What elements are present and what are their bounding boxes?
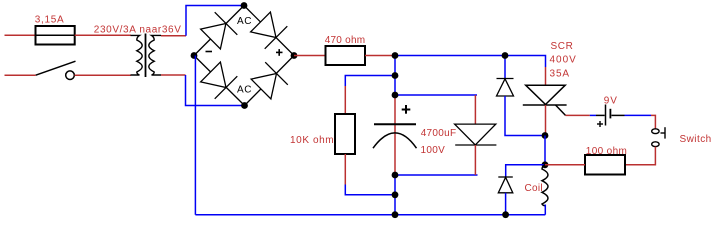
SCR U1 thyristor	[523, 85, 567, 115]
wire node A down	[394, 56, 396, 96]
wire 10K bottom lead red	[344, 154, 346, 185]
wire battery left lead	[596, 114, 605, 116]
node left minus	[191, 52, 198, 59]
switch S1 mains	[36, 61, 76, 79]
wire diode D6 top lead	[504, 56, 506, 79]
wire cathode node down	[544, 136, 546, 165]
transformer T1 core	[145, 34, 147, 78]
battery B1 9V	[606, 105, 611, 126]
wire mains left bottom	[5, 74, 36, 76]
wire top rail blue	[395, 56, 546, 68]
wire 10K bottom blue	[345, 185, 395, 195]
diode D3 bridge bottom-left	[201, 62, 238, 99]
resistor R2 10K ohm	[335, 114, 355, 154]
node 10K top junction	[392, 72, 399, 79]
node mid rail junction	[392, 211, 399, 218]
node top rail diode junction	[502, 52, 509, 59]
wire pushbutton bottom red	[625, 147, 655, 165]
diode D2 bridge top-right	[251, 12, 288, 49]
label plus	[276, 49, 283, 56]
svg-text:470 ohm: 470 ohm	[325, 35, 366, 46]
svg-text:400V: 400V	[550, 55, 577, 66]
node top AC	[241, 2, 248, 9]
wire fuse to transformer	[75, 34, 131, 36]
wire secondary top red	[161, 35, 186, 37]
node coil top junction	[542, 161, 549, 168]
resistor R1 470 ohm	[326, 46, 366, 65]
wire 100 ohm to coil node	[545, 164, 585, 166]
wire plus node to resistor	[294, 55, 326, 57]
wire cap top branch	[395, 94, 477, 96]
wire cap bottom branch	[395, 174, 478, 176]
svg-text:100V: 100V	[421, 145, 446, 156]
svg-text:Coil: Coil	[525, 183, 543, 194]
wire mid diode top lead	[474, 95, 476, 124]
node rail diode junction	[502, 211, 509, 218]
svg-text:10K ohm: 10K ohm	[290, 135, 334, 146]
wire minus node down left rail	[194, 56, 196, 215]
node cap top junction	[392, 92, 399, 99]
wire diode D6 bottom to SCR cathode	[505, 96, 545, 136]
wire SCR cathode red	[545, 105, 547, 136]
wire pushbutton top red	[651, 115, 655, 129]
wire to 10K top	[345, 76, 395, 87]
wire freewheel diode D7 branch	[506, 165, 545, 177]
svg-text:230V/3A naar36V: 230V/3A naar36V	[94, 25, 182, 36]
svg-text:100 ohm: 100 ohm	[586, 146, 627, 157]
node cap bottom junction	[392, 172, 399, 179]
svg-text:AC: AC	[237, 84, 252, 95]
wire mains left top	[5, 34, 36, 36]
diode D6 upper freewheel	[497, 79, 514, 97]
wire mid diode bottom lead	[474, 145, 476, 175]
fuse F1 3,15A	[36, 26, 75, 45]
svg-text:3,15A: 3,15A	[35, 15, 65, 26]
transformer T1 secondary winding	[149, 35, 161, 75]
wire coil bottom stub	[544, 205, 546, 215]
wire switch to transformer	[75, 74, 132, 76]
coil L1	[542, 165, 548, 206]
capacitor C1 plates	[373, 124, 417, 148]
node SCR cathode junction	[542, 132, 549, 139]
diode D4 bridge bottom-right	[251, 62, 288, 99]
label minus	[206, 51, 213, 53]
label plus cap	[402, 105, 411, 114]
node 10K bottom junction	[392, 191, 399, 198]
svg-text:AC: AC	[237, 16, 252, 27]
wire secondary bottom blue	[186, 75, 245, 106]
node A junction	[392, 52, 399, 59]
svg-text:9V: 9V	[604, 96, 618, 107]
node right plus	[291, 52, 298, 59]
capacitor C1 lead	[394, 95, 396, 175]
wire secondary bottom red	[161, 74, 186, 76]
wire battery right lead	[612, 114, 625, 116]
diode D7 coil freewheel	[498, 177, 513, 193]
diode D5 middle	[455, 124, 497, 145]
svg-text:4700uF: 4700uF	[421, 128, 457, 139]
wire mid column down	[394, 175, 396, 215]
pushbutton S2	[652, 127, 665, 146]
wire SCR gate red	[566, 114, 590, 116]
svg-text:SCR: SCR	[551, 41, 574, 52]
bridge rectifier diamond edges	[194, 6, 294, 106]
svg-text:Switch: Switch	[680, 134, 712, 145]
svg-text:35A: 35A	[550, 68, 571, 79]
wire 10K top lead red	[344, 86, 346, 114]
label plus battery	[597, 121, 603, 127]
node bottom AC	[241, 102, 248, 109]
wire resistor to node A	[365, 55, 395, 57]
wire battery to pushbutton blue	[625, 114, 652, 116]
diode D1 bridge top-left	[201, 12, 238, 49]
wire SCR anode red	[545, 67, 547, 85]
wire SCR gate blue	[590, 114, 596, 116]
resistor R3 100 ohm	[585, 155, 625, 175]
wire secondary top blue	[186, 6, 244, 36]
wire diode D7 anode to rail	[505, 193, 507, 215]
transformer T1 primary winding	[131, 35, 143, 75]
wire bottom rail	[195, 214, 545, 216]
